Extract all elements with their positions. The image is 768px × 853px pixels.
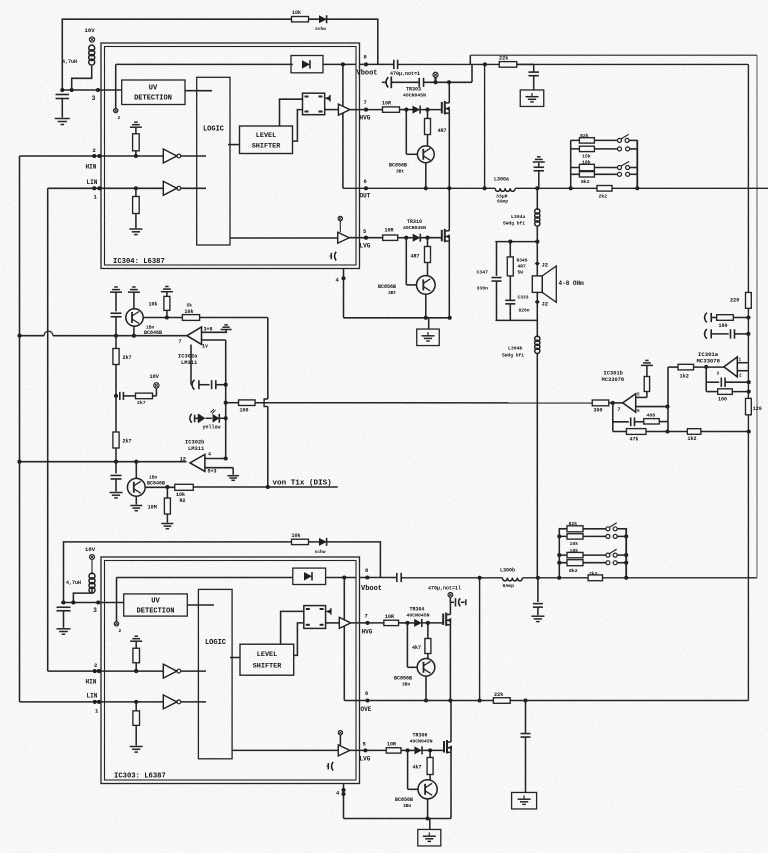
speaker 4-8 Ohm: [532, 265, 584, 302]
label pin6 OVE bottom: [361, 690, 372, 713]
ground speaker return: [531, 616, 544, 621]
ground IC302b: [227, 476, 239, 481]
resistor 10k osc vertical: [149, 292, 170, 318]
label IC303: L6387: [114, 773, 166, 781]
wire IC302a upper out: [202, 330, 228, 332]
capacitor after 22k top: [528, 64, 539, 90]
resistor pull-down LIN top: [129, 186, 142, 234]
wire LS to driver 2 bottom: [294, 623, 304, 656]
wire top supply rail y55: [470, 54, 757, 56]
transistor BC846B osc lower: [127, 462, 174, 505]
resistor bank bottom right rail: [624, 528, 628, 580]
resistor 10R HVG bottom: [384, 614, 414, 626]
capacitor 18V branch: [120, 392, 136, 400]
logic box top: [197, 77, 230, 245]
terminal J2 lower: [535, 292, 548, 307]
label 3+8: [204, 327, 213, 333]
label pin7 HVG top: [360, 99, 371, 122]
inductor 4,7uH bottom: [66, 560, 95, 594]
comparator IC302a: [187, 327, 202, 345]
wire osc output bus: [224, 340, 228, 461]
capacitor bypass LVG bottom: [327, 762, 334, 771]
ground box OVE branch: [512, 792, 537, 809]
wire row 10k osc: [167, 317, 268, 319]
wire 100 row: [226, 402, 239, 404]
resistor bank top right rail: [635, 140, 639, 190]
wire IC301b out: [636, 405, 670, 414]
logic box bottom: [198, 589, 232, 758]
resistor 10k R2: [175, 484, 194, 504]
mosfet TR304 bottom: [443, 611, 451, 701]
opamp IC301b: [602, 371, 636, 414]
resistor 2k2 top: [597, 186, 612, 200]
wire bootstrap row top: [382, 80, 472, 84]
resistor 2k7 osc upper: [113, 336, 132, 398]
wire vertical 1k2 junction: [665, 367, 669, 433]
resistor 100 fb IC301a: [706, 389, 751, 403]
resistor 15k row top: [571, 146, 638, 159]
capacitor bypass LVG top: [330, 252, 337, 261]
resistor 10R LVG bottom: [386, 741, 414, 753]
wire Vboot row bottom: [360, 576, 757, 580]
wire rail B right: [756, 55, 758, 578]
label IC302a: [178, 354, 198, 367]
resistor 4k7 LVG top: [411, 236, 431, 276]
wire LS to driver 2 top: [293, 110, 303, 142]
inverter HIN top: [163, 149, 206, 163]
transistor BC856B LVG top: [406, 238, 435, 318]
wire bottom feed 18V rail: [64, 542, 381, 603]
wire IC301a fb vertical: [705, 367, 707, 392]
wire comparator A line: [17, 331, 187, 338]
wire decoupling row1: [704, 313, 751, 323]
wire UV to logic top: [185, 90, 212, 92]
label BC856B LVG top: [378, 284, 397, 296]
wire LIN row top: [48, 179, 164, 201]
resistor 8k2 row top: [571, 172, 638, 185]
label TR306: [410, 733, 433, 745]
ground Vcc filter bottom: [57, 629, 71, 634]
wire pin 3 row bottom: [61, 600, 124, 614]
resistor 10M: [148, 485, 171, 523]
label pin7 HVG bottom: [362, 613, 373, 636]
terminal J2 upper: [535, 261, 548, 269]
bootstrap diode box top: [291, 56, 356, 73]
wire logic to LVG bottom: [232, 749, 338, 751]
wire LIN row bottom: [20, 693, 164, 715]
wire supply jog top: [470, 55, 472, 82]
pin 2 Vcc top: [114, 64, 121, 121]
label TR310: [403, 219, 426, 231]
ground 10M: [161, 524, 173, 529]
resistor pull-down LIN bottom: [130, 700, 143, 752]
supply terminal 18V top: [85, 27, 96, 42]
UV detection box top: [122, 80, 185, 105]
transistor BC856B HVG top: [406, 110, 434, 191]
wire IC301a outputs: [717, 358, 749, 379]
wire IC301b plus bias: [636, 392, 647, 398]
wire 47k row: [613, 429, 751, 433]
resistor 18k row bottom: [559, 548, 626, 558]
wire IC301b fb vertical: [612, 403, 614, 432]
diode D301 schw: [315, 538, 327, 555]
capacitor Vcc filter bottom: [57, 607, 71, 628]
resistor bank bottom left rail: [557, 528, 561, 580]
wire IC302b upper out: [205, 458, 226, 460]
wire inductor to pin3 node: [72, 66, 92, 90]
ground box pin4 top: [417, 318, 440, 346]
wire LS to driver 1 top: [280, 99, 303, 126]
transistor BC856B HVG bottom: [407, 623, 434, 703]
wire decoupling row2: [704, 329, 751, 339]
ground 10k osc: [161, 287, 173, 292]
capacitor Vcc filter top: [56, 95, 70, 118]
wire rail A right: [747, 64, 749, 700]
capacitor 2 bootstrap top: [419, 78, 423, 87]
comparator IC302b: [190, 454, 205, 471]
supply terminal 18V bottom: [85, 546, 96, 560]
driver box top: [303, 93, 339, 115]
resistor 10R LVG top: [383, 228, 413, 241]
resistor 22k bottom: [493, 692, 510, 703]
resistor 1k2 fb: [687, 429, 701, 442]
wire logic to level shifter bottom: [230, 657, 240, 659]
inductor L304b: [502, 304, 540, 578]
label BC856B HVG top: [389, 163, 407, 175]
inverter LIN top: [163, 181, 206, 195]
bootstrap diode box bottom: [293, 568, 356, 584]
led pair yellow: [190, 409, 226, 431]
wire von T1x line: [193, 480, 338, 489]
capacitor fb IC301a: [706, 378, 751, 387]
wire IC302a lower out: [179, 339, 226, 350]
wire Vboot row top: [360, 62, 749, 66]
capacitor electrolytic bootstrap top: [386, 77, 391, 89]
wire pin4 ground rail bottom: [336, 784, 451, 819]
resistor 8k2 row bottom: [559, 560, 626, 574]
resistor 82k row top: [571, 133, 638, 143]
wire OVE row bottom: [344, 698, 748, 702]
inductor L300b: [500, 568, 522, 590]
level shifter box bottom: [240, 644, 294, 675]
pin 8 Vboot top: [357, 54, 378, 78]
diode LVG bottom: [414, 746, 444, 754]
diode HVG bottom: [414, 619, 443, 627]
transistor BC856B LVG bottom: [408, 750, 438, 820]
wire HIN row bottom: [48, 662, 164, 686]
wire internal out rail bottom: [342, 575, 346, 700]
label BC846B osc upper: [144, 325, 162, 337]
resistor pull-up HIN bottom: [130, 636, 142, 673]
inverter HIN bottom: [163, 664, 206, 678]
inductor L300a: [494, 177, 515, 205]
diode D300 schw: [315, 15, 327, 32]
wire boot return rail bottom: [479, 578, 481, 701]
label pin6 OUT top: [360, 178, 371, 200]
label BC856B LVG bottom: [395, 797, 413, 809]
label TR303: [403, 87, 426, 99]
wire inductor to pin3 node bottom: [73, 588, 92, 603]
resistor 220 rail: [730, 293, 751, 309]
wire logic to level shifter top: [228, 144, 240, 146]
label IC304: L6387: [113, 258, 165, 266]
capacitor bootstrap bottom: [450, 598, 465, 606]
wire 1k2 row to IC301a: [668, 365, 724, 369]
driver triangle HVG top: [338, 104, 382, 115]
resistor bias IC301b: [644, 366, 649, 392]
mosfet TR303 top: [442, 82, 450, 188]
resistor 10k top feed: [292, 10, 309, 22]
resistor 10k bottom feed: [292, 533, 309, 545]
resistor 4k7 HVG top: [425, 108, 447, 146]
driver triangle HVG bottom: [339, 617, 384, 628]
inverter LIN bottom: [163, 695, 206, 709]
label IC302b: [180, 440, 212, 463]
driver triangle LVG top: [338, 216, 383, 243]
wire comparator B line: [17, 460, 186, 464]
wire v3 vertical: [264, 318, 268, 487]
wire zobel bottom row: [495, 319, 537, 321]
resistor 10k osc horizontal: [182, 303, 199, 321]
IC304 box: [101, 43, 360, 269]
terminal bootstrap top: [433, 72, 438, 80]
capacitor 470u bootstrap bottom: [397, 573, 461, 592]
wire OUT row top: [343, 186, 768, 190]
capacitor osc column: [111, 292, 122, 336]
wire top feed 18V rail: [62, 19, 378, 90]
label BC856B HVG bottom: [394, 676, 412, 688]
wire HIN row top: [20, 147, 164, 171]
resistor 300 input b: [592, 400, 609, 414]
wire UV to logic bottom: [187, 604, 214, 606]
transistor BC846B osc upper: [126, 292, 169, 336]
driver triangle LVG bottom: [338, 731, 386, 756]
wire supply to out rail top: [484, 64, 486, 188]
resistor R346: [507, 242, 527, 300]
wire HIN vertical v1: [19, 156, 21, 702]
resistor 100 osc: [239, 400, 256, 414]
capacitor osc timing: [191, 345, 226, 390]
capacitor C347: [477, 242, 502, 321]
wire zobel top row: [495, 240, 539, 244]
wire internal out rail top: [341, 62, 345, 188]
diode LVG top: [413, 234, 442, 242]
driver box bottom: [304, 606, 340, 629]
opamp IC301a: [697, 351, 738, 377]
wire logic to LVG top: [230, 237, 338, 239]
resistor 4k7 HVG bottom: [412, 621, 431, 659]
ground osc column top: [110, 287, 122, 292]
ground osc transistor top: [128, 287, 140, 292]
ground B line branch: [110, 493, 123, 498]
wire IC302b lower out: [205, 468, 233, 475]
resistor 18k row top: [571, 160, 638, 171]
ground Vcc filter top: [55, 119, 70, 125]
mosfet TR306 bottom: [444, 701, 452, 819]
wire internal Vcc top: [116, 63, 293, 65]
capacitor C333: [505, 295, 529, 321]
level shifter box top: [240, 126, 293, 154]
resistor 1k2 input a: [678, 364, 694, 379]
diode HVG top: [413, 106, 442, 114]
capacitor 470u bootstrap top: [390, 60, 420, 77]
ground box pin4 bottom: [418, 819, 441, 846]
ground box top right: [520, 90, 544, 107]
terminal bootstrap bottom: [448, 592, 453, 611]
capacitor speaker return: [533, 576, 543, 615]
label BC846B osc lower: [147, 475, 165, 487]
wire LS to driver 1 bottom: [281, 611, 304, 644]
pin 8 Vboot bottom: [361, 567, 382, 593]
resistor 120 rail: [746, 398, 762, 414]
capacitor fb IC301b: [613, 417, 644, 426]
ground bias IC301b: [641, 360, 653, 365]
capacitor OVE branch: [521, 701, 531, 793]
terminal 18V mid: [150, 374, 160, 388]
wire pin 3 row top: [60, 88, 121, 102]
mosfet TR310 top: [442, 188, 450, 317]
resistor 10R HVG top: [382, 101, 413, 113]
wire internal Vcc bottom: [117, 577, 293, 579]
resistor pull-up HIN top: [130, 122, 142, 158]
ground osc lower emitter: [130, 506, 142, 511]
resistor 2k2 bottom: [588, 571, 602, 581]
resistor 4k8 fb IC301b: [644, 413, 668, 425]
label pin5 LVG bottom: [360, 741, 371, 763]
pin 2 Vcc bottom: [114, 578, 121, 635]
label pin5 LVG top: [360, 228, 371, 250]
wire line to opamp input: [255, 402, 592, 404]
resistor 180 row1: [717, 315, 734, 329]
resistor 47k: [626, 429, 646, 443]
capacitor output filter top: [533, 157, 545, 189]
label TR304: [407, 607, 430, 619]
inductor 4,7uH top: [62, 45, 95, 65]
wire pin4 ground rail top: [336, 269, 452, 320]
ground IC302a: [221, 325, 232, 330]
resistor 22k top: [499, 56, 528, 68]
resistor 4k7 LVG bottom: [413, 748, 434, 779]
UV detection box bottom: [124, 594, 188, 616]
resistor 82k row bottom: [559, 521, 626, 532]
IC303 box: [101, 557, 360, 784]
wire LIN vertical v2: [47, 188, 49, 671]
resistor 15k row bottom: [559, 534, 626, 547]
resistor bank top left rail: [569, 140, 573, 190]
capacitor B line branch: [111, 462, 122, 492]
resistor 2k7 osc lower: [113, 396, 132, 462]
inductor L304a: [503, 188, 540, 261]
resistor 2k7 18V branch: [136, 388, 157, 406]
